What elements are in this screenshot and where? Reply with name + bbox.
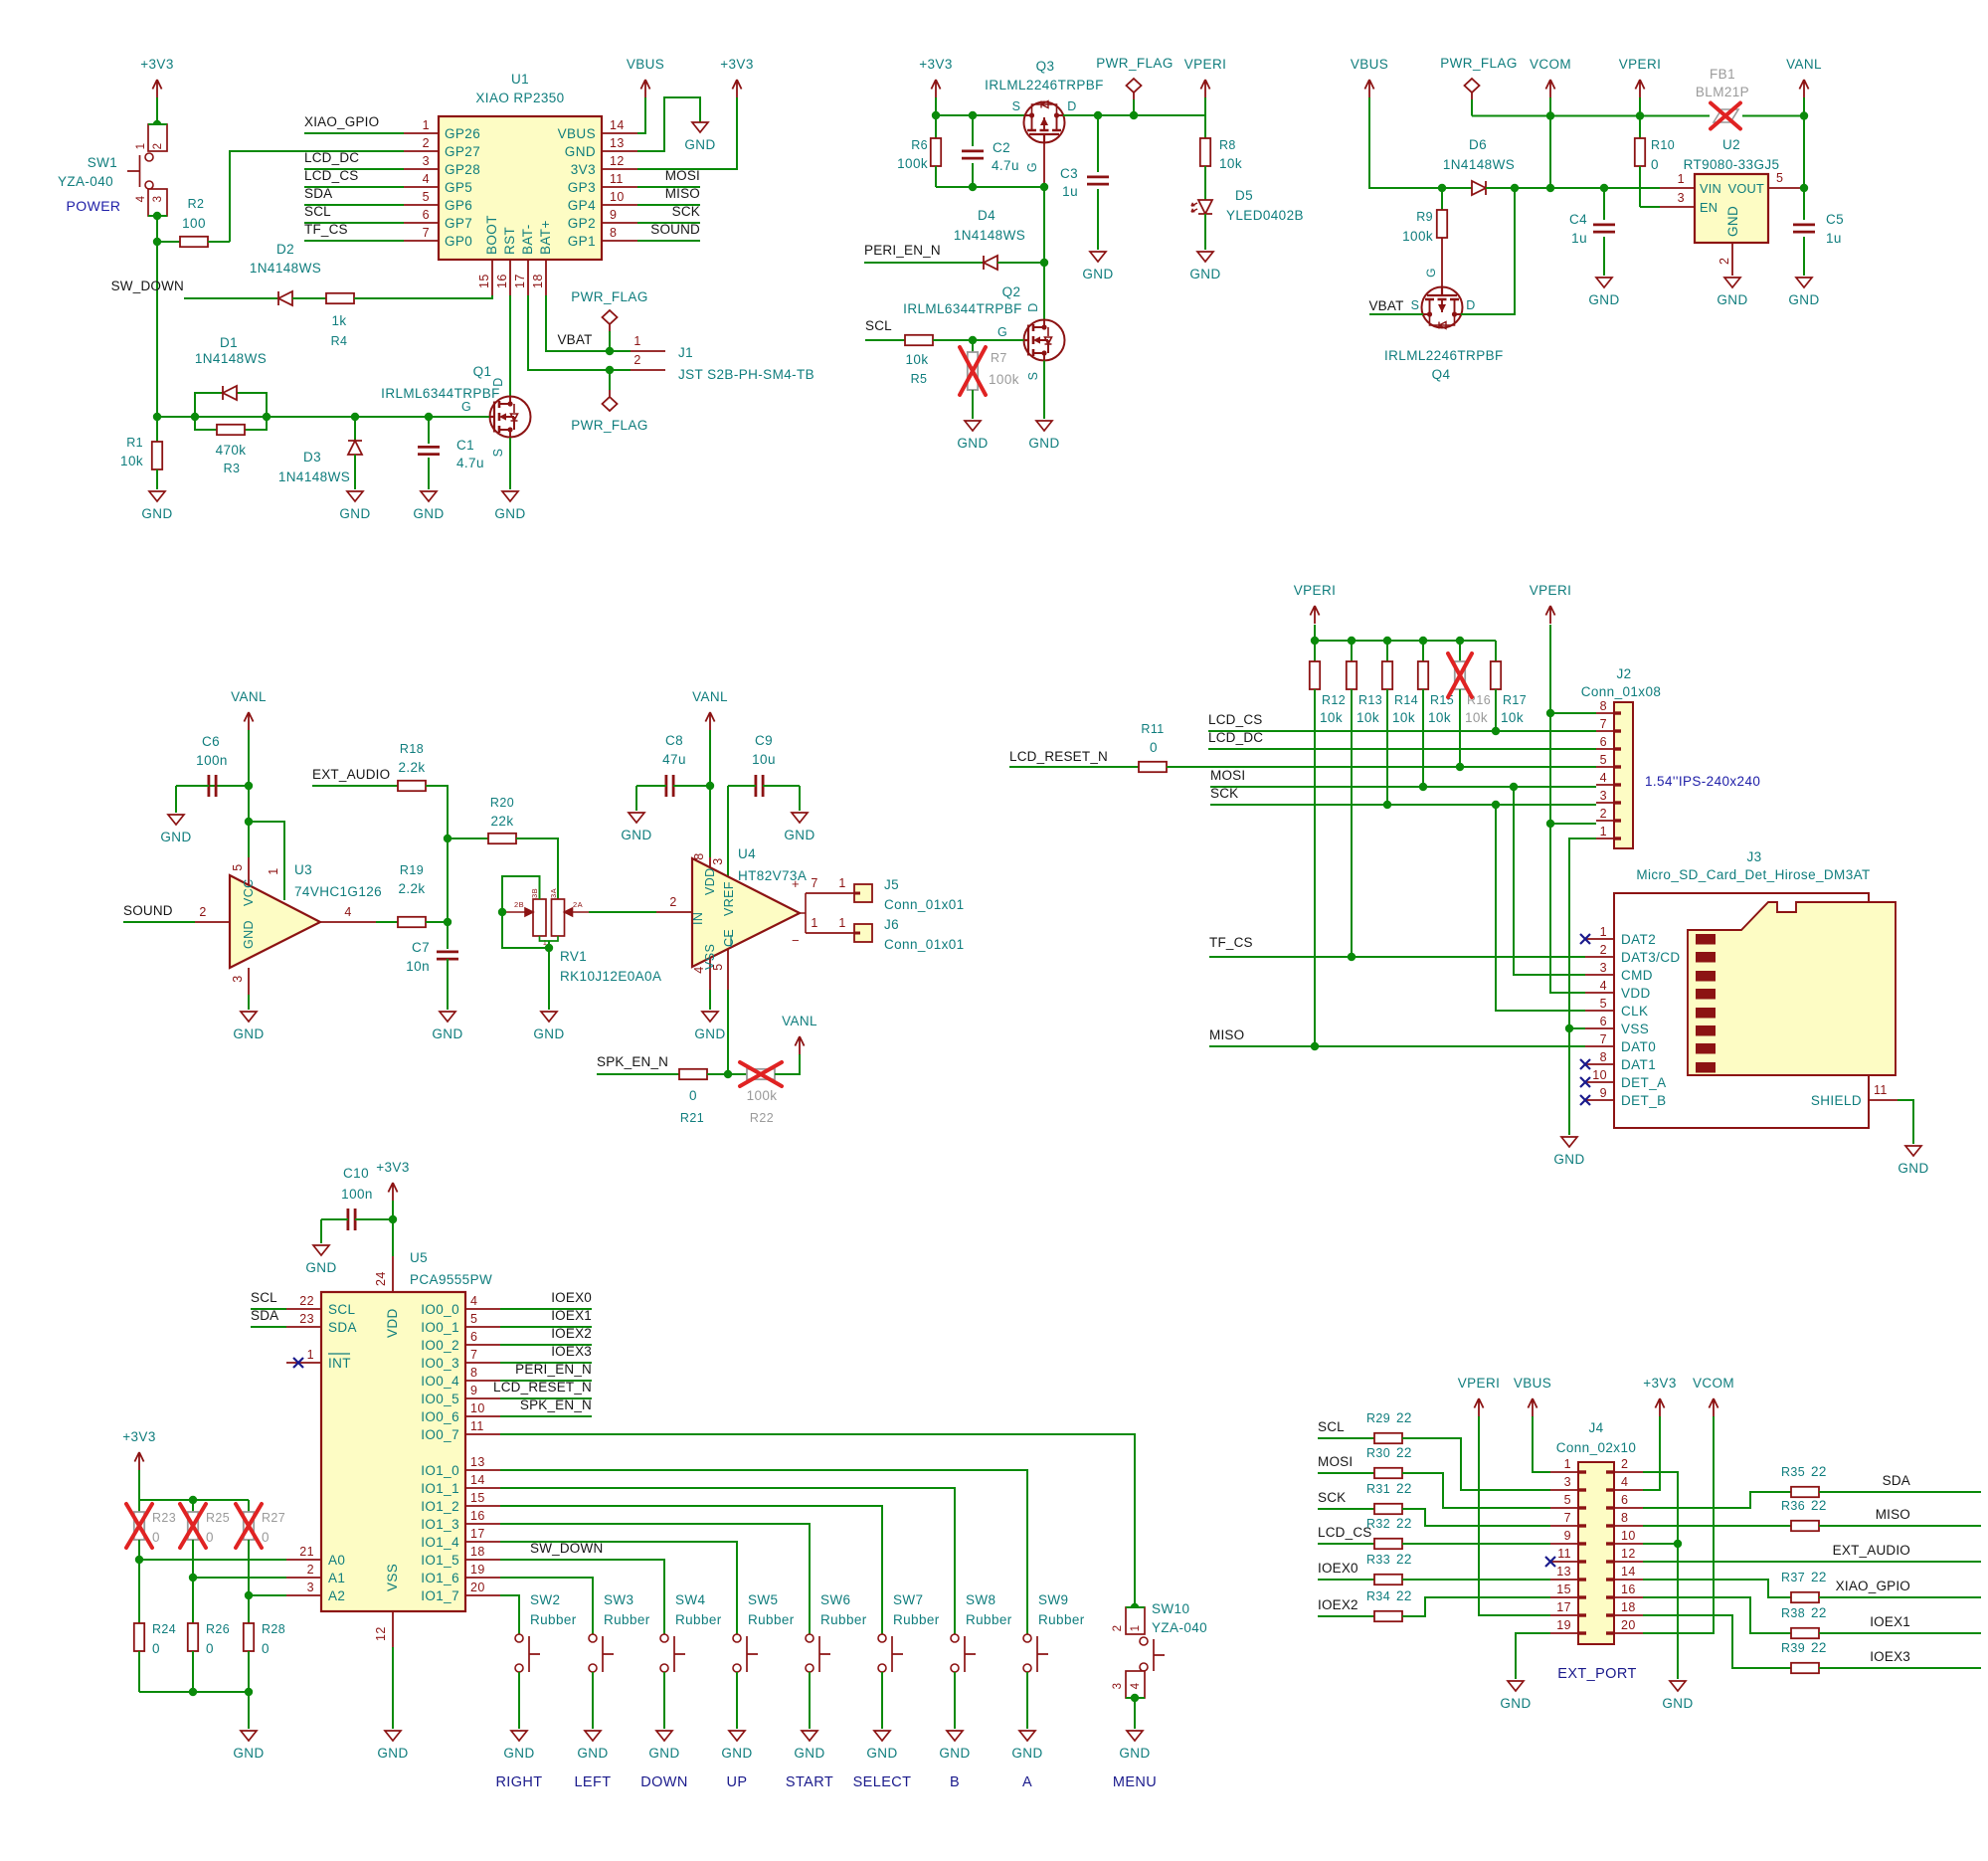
- switch SW9 Rubber: [1023, 1634, 1031, 1642]
- svg-text:EN: EN: [1700, 200, 1717, 215]
- svg-text:8: 8: [1600, 1050, 1607, 1064]
- junction PWR_FLAG: [1130, 111, 1138, 119]
- ground below SW6: [802, 1731, 817, 1741]
- svg-text:GND: GND: [533, 1026, 564, 1041]
- wire SCL to R29: [1318, 1437, 1374, 1439]
- svg-text:6: 6: [1600, 735, 1607, 749]
- svg-text:2.2k: 2.2k: [398, 760, 425, 775]
- wire U5 IOEX0: [500, 1308, 592, 1310]
- svg-text:LCD_DC: LCD_DC: [304, 150, 359, 165]
- svg-text:MISO: MISO: [1209, 1027, 1244, 1042]
- svg-text:8: 8: [470, 1366, 477, 1380]
- junction C3 top: [1094, 111, 1102, 119]
- junction VPERI/J2 pin2: [1546, 820, 1554, 828]
- U5 pin 16 IO1_3: [465, 1523, 500, 1525]
- svg-text:Rubber: Rubber: [966, 1612, 1012, 1627]
- svg-text:3B: 3B: [530, 888, 539, 898]
- svg-text:R38: R38: [1781, 1606, 1805, 1620]
- resistor R23 0 (DNP): [138, 1500, 140, 1512]
- wire TF_CS to J3 DAT3/CD: [1209, 956, 1585, 958]
- power VBUS (J4): [1528, 1398, 1536, 1416]
- capacitor C3 1u: [1097, 115, 1099, 172]
- svg-text:YZA-040: YZA-040: [1152, 1620, 1207, 1635]
- wire U5 LCD_RESET_N: [500, 1397, 592, 1399]
- svg-text:11: 11: [1874, 1083, 1888, 1097]
- resistor R2: [157, 241, 180, 243]
- svg-text:Q3: Q3: [1036, 59, 1055, 74]
- J2 pin 2 stub: [1596, 820, 1614, 822]
- svg-text:100k: 100k: [1402, 229, 1433, 244]
- svg-text:IO1_4: IO1_4: [421, 1535, 459, 1550]
- svg-text:MISO: MISO: [665, 186, 700, 201]
- svg-text:9: 9: [470, 1384, 477, 1397]
- resistor R3 470k (parallel bottom): [195, 417, 217, 430]
- svg-text:CLK: CLK: [1621, 1004, 1648, 1019]
- svg-text:SHIELD: SHIELD: [1811, 1093, 1862, 1108]
- svg-text:8: 8: [1600, 699, 1607, 713]
- svg-text:VSS: VSS: [1621, 1022, 1649, 1036]
- wire U5 IOEX2: [500, 1344, 592, 1346]
- J3 pin 6 VSS: [1585, 1027, 1614, 1029]
- wire R20 to RV1 top: [516, 838, 558, 899]
- wire J4 pin10 to GND column: [1643, 1543, 1678, 1545]
- wire +3V3 to U5 VDD: [392, 1201, 394, 1256]
- svg-text:J6: J6: [884, 917, 899, 932]
- wire Q3 drain rail: [1063, 114, 1205, 116]
- svg-text:22: 22: [1396, 1481, 1412, 1496]
- capacitor C2 4.7u: [972, 115, 974, 146]
- wire C6 to GND: [175, 786, 177, 813]
- ground below C9: [792, 813, 808, 823]
- U4 pin3 VREF: [727, 876, 729, 877]
- power +3V3 (U5): [388, 1183, 397, 1201]
- svg-text:GP26: GP26: [445, 126, 480, 141]
- wire EXT_AUDIO to R18: [312, 785, 398, 787]
- junction strap rail R25: [189, 1496, 197, 1504]
- wire SHIELD to GND: [1898, 1100, 1913, 1144]
- svg-text:SW9: SW9: [1038, 1592, 1068, 1607]
- svg-text:1: 1: [267, 867, 280, 874]
- resistor R33 22: [1374, 1575, 1402, 1584]
- wire U5 IO0_7 to SW10: [500, 1434, 1135, 1607]
- svg-text:19: 19: [1556, 1618, 1571, 1632]
- svg-text:VANL: VANL: [782, 1014, 817, 1028]
- power VPERI (Q3 drain): [1200, 80, 1209, 97]
- svg-text:R17: R17: [1503, 693, 1527, 707]
- svg-text:74VHC1G126: 74VHC1G126: [294, 884, 382, 899]
- power VBUS (U1): [640, 80, 649, 97]
- wire R32 to J4: [1402, 1543, 1550, 1545]
- svg-text:4: 4: [1621, 1475, 1628, 1489]
- svg-text:SCK: SCK: [1210, 786, 1238, 801]
- junction C8 node: [706, 782, 714, 790]
- svg-text:SELECT: SELECT: [853, 1774, 912, 1790]
- junction bottom rail R28: [245, 1688, 253, 1696]
- resistor R8 10k: [1200, 138, 1210, 166]
- svg-text:R3: R3: [224, 462, 241, 475]
- wire U5 SPK_EN_N: [500, 1415, 592, 1417]
- svg-text:1: 1: [838, 916, 845, 930]
- svg-text:6: 6: [470, 1330, 477, 1344]
- wire C9 to GND: [799, 786, 801, 811]
- wire U5 PERI_EN_N: [500, 1380, 592, 1382]
- svg-text:+3V3: +3V3: [122, 1429, 156, 1444]
- junction MOSI/CMD riser: [1510, 783, 1518, 791]
- connector J2 Conn_01x08 body: [1614, 702, 1633, 848]
- svg-text:15: 15: [477, 274, 491, 288]
- wire SCL to U5: [251, 1308, 286, 1310]
- U5 pin 7 IO0_3: [465, 1362, 500, 1364]
- svg-text:J4: J4: [1588, 1420, 1603, 1435]
- wire U1 pin18 BAT+ to J1 pin1: [546, 295, 631, 351]
- U5 pin 8 IO0_4: [465, 1380, 500, 1382]
- svg-text:GP4: GP4: [568, 198, 596, 213]
- svg-text:Rubber: Rubber: [675, 1612, 722, 1627]
- svg-text:22: 22: [1396, 1410, 1412, 1425]
- svg-text:10k: 10k: [1320, 710, 1343, 725]
- no-connect J4 pin11: [1545, 1557, 1555, 1567]
- svg-text:0: 0: [152, 1530, 160, 1545]
- transistor Q4 IRLML2246TRPBF: [1422, 287, 1463, 328]
- svg-text:5: 5: [1600, 753, 1607, 767]
- svg-text:SW5: SW5: [748, 1592, 778, 1607]
- wire SW7 to GND: [881, 1672, 883, 1729]
- svg-text:IO1_7: IO1_7: [421, 1588, 459, 1603]
- svg-text:22: 22: [1396, 1445, 1412, 1460]
- svg-text:SW7: SW7: [893, 1592, 923, 1607]
- svg-text:SOUND: SOUND: [123, 903, 173, 918]
- svg-text:IO0_2: IO0_2: [421, 1338, 459, 1353]
- wire SW3 to GND: [592, 1672, 594, 1729]
- svg-text:GND: GND: [377, 1746, 408, 1761]
- svg-text:IO1_2: IO1_2: [421, 1499, 459, 1514]
- svg-text:Q4: Q4: [1432, 367, 1451, 382]
- wire VBAT to Q4 source: [1369, 313, 1423, 315]
- wire SW10 to GND: [1134, 1698, 1136, 1729]
- resistor R35 22: [1791, 1487, 1819, 1497]
- svg-text:7: 7: [1600, 717, 1607, 731]
- svg-text:VOUT: VOUT: [1728, 181, 1764, 196]
- potentiometer RV1 RK10J12E0A0A: [533, 899, 546, 936]
- svg-text:EXT_PORT: EXT_PORT: [1557, 1666, 1636, 1682]
- wire PWR_FLAG to VCOM node: [1472, 115, 1550, 117]
- switch SW1 pin3 box: [148, 189, 167, 216]
- svg-text:Rubber: Rubber: [1038, 1612, 1085, 1627]
- U5 pin 5 IO0_1: [465, 1326, 500, 1328]
- svg-text:VSS: VSS: [385, 1564, 400, 1591]
- svg-text:7: 7: [1564, 1511, 1571, 1525]
- svg-text:A2: A2: [328, 1588, 345, 1603]
- wire OE branch to U3 pin1: [249, 822, 284, 900]
- svg-text:R1: R1: [126, 436, 143, 450]
- wire R38 to IOEX1: [1819, 1632, 1981, 1634]
- svg-text:1.54''IPS-240x240: 1.54''IPS-240x240: [1645, 774, 1760, 789]
- svg-text:VBAT: VBAT: [557, 332, 592, 347]
- svg-text:GND: GND: [1717, 292, 1747, 307]
- wire R22 to VANL: [775, 1054, 800, 1074]
- svg-text:R2: R2: [188, 197, 205, 211]
- svg-text:IRLML6344TRPBF: IRLML6344TRPBF: [903, 301, 1022, 316]
- svg-text:LCD_DC: LCD_DC: [1208, 730, 1263, 745]
- svg-text:14: 14: [610, 118, 625, 132]
- svg-text:D: D: [1026, 302, 1040, 311]
- svg-text:9: 9: [1600, 1086, 1607, 1100]
- svg-text:R10: R10: [1651, 138, 1675, 152]
- svg-text:GND: GND: [233, 1026, 264, 1041]
- wire D6 to VIN: [1486, 187, 1660, 189]
- resistor R36 22: [1791, 1521, 1819, 1531]
- junction R17/LCD_CS: [1492, 727, 1500, 735]
- svg-text:0: 0: [152, 1641, 160, 1656]
- resistor R10 0: [1639, 137, 1641, 139]
- svg-text:6: 6: [1621, 1493, 1628, 1507]
- ground below U2: [1724, 278, 1740, 287]
- U3 pin3 GND: [248, 968, 250, 995]
- svg-text:2.2k: 2.2k: [398, 881, 425, 896]
- svg-text:PWR_FLAG: PWR_FLAG: [1440, 56, 1517, 71]
- svg-text:C10: C10: [343, 1166, 369, 1181]
- svg-text:Q2: Q2: [1002, 284, 1021, 299]
- wire R39 to IOEX3: [1819, 1667, 1981, 1669]
- svg-text:IOEX2: IOEX2: [551, 1326, 592, 1341]
- ground below SW5: [729, 1731, 745, 1741]
- svg-text:VANL: VANL: [692, 689, 728, 704]
- svg-text:GND: GND: [141, 506, 172, 521]
- resistor R24 0: [138, 1560, 140, 1623]
- svg-text:7: 7: [1600, 1032, 1607, 1046]
- junction RV1 wiper-B: [498, 908, 506, 916]
- junction R6 top: [932, 111, 940, 119]
- power flag PWR_FLAG (BAT-): [609, 370, 611, 390]
- wire VPERI node to FB1: [1640, 115, 1710, 117]
- svg-text:GND: GND: [339, 506, 370, 521]
- U4 output riser: [800, 893, 806, 933]
- resistor R1: [156, 417, 158, 442]
- svg-text:EXT_AUDIO: EXT_AUDIO: [1833, 1543, 1910, 1558]
- svg-text:VBUS: VBUS: [627, 57, 664, 72]
- svg-text:16: 16: [470, 1509, 485, 1523]
- svg-text:IOEX1: IOEX1: [1870, 1614, 1910, 1629]
- wire R25 to A1 row: [192, 1540, 194, 1578]
- J4 pin 8 stub: [1614, 1525, 1643, 1527]
- svg-text:R21: R21: [680, 1111, 704, 1125]
- wire C8 to GND: [635, 786, 637, 811]
- resistor R30 22: [1374, 1468, 1402, 1478]
- wire VANL column: [1803, 97, 1805, 220]
- svg-text:23: 23: [299, 1312, 314, 1326]
- svg-text:1: 1: [1564, 1457, 1571, 1471]
- resistor R5 10k: [905, 335, 933, 345]
- svg-text:VIN: VIN: [1700, 181, 1721, 196]
- resistor R12 10k: [1314, 641, 1316, 661]
- junction C10/VDD: [389, 1215, 397, 1223]
- svg-text:SDA: SDA: [328, 1320, 357, 1335]
- svg-text:GND: GND: [160, 830, 191, 844]
- svg-text:DAT0: DAT0: [1621, 1039, 1656, 1054]
- svg-text:47u: 47u: [662, 752, 686, 767]
- ground below SW3: [585, 1731, 601, 1741]
- svg-text:R19: R19: [400, 863, 424, 877]
- wire VBUS to J4 pin1: [1533, 1416, 1550, 1472]
- wire U5 IO to SW6: [500, 1524, 810, 1634]
- svg-text:2: 2: [307, 1563, 314, 1577]
- ground below C1: [421, 491, 437, 501]
- junction VANL top: [1800, 111, 1808, 119]
- J4 pin 2 stub: [1614, 1471, 1643, 1473]
- svg-text:R4: R4: [331, 334, 348, 348]
- svg-text:2: 2: [1717, 258, 1731, 265]
- power +3V3 (Q3 source): [931, 80, 940, 97]
- RV1 wiper right (2A): [565, 908, 590, 916]
- svg-text:VANL: VANL: [231, 689, 267, 704]
- resistor R39 22: [1791, 1663, 1819, 1673]
- svg-text:R13: R13: [1358, 693, 1382, 707]
- J4 pin 13 stub: [1550, 1579, 1578, 1581]
- wire U5 IO to SW8: [500, 1488, 955, 1634]
- svg-text:1: 1: [135, 143, 147, 150]
- svg-text:9: 9: [1564, 1529, 1571, 1543]
- wire U5 IO to SW5: [500, 1542, 737, 1634]
- svg-text:SOUND: SOUND: [650, 222, 700, 237]
- wire Q4 drain up to VBUS line: [1461, 188, 1515, 314]
- svg-text:R25: R25: [206, 1511, 230, 1525]
- U1 pin 2 GP27: [404, 150, 439, 152]
- J3 SD card silhouette: [1688, 902, 1896, 1075]
- U1 pin 10 GP4: [602, 204, 637, 206]
- svg-text:BAT+: BAT+: [538, 220, 553, 255]
- svg-text:Rubber: Rubber: [820, 1612, 867, 1627]
- svg-text:SCL: SCL: [1318, 1419, 1345, 1434]
- wire SCK branch to J3 CLK: [1496, 805, 1585, 1011]
- wire R18 to mix node: [426, 786, 448, 838]
- ground below SW4: [656, 1731, 672, 1741]
- power VPERI (J4): [1474, 1398, 1483, 1416]
- svg-text:IOEX2: IOEX2: [1318, 1597, 1358, 1612]
- svg-text:4: 4: [470, 1294, 477, 1308]
- svg-text:5: 5: [423, 190, 430, 204]
- resistor R14 10k: [1386, 641, 1388, 661]
- wire gate node to Q2 drain: [1043, 263, 1045, 319]
- svg-text:IN: IN: [691, 912, 705, 925]
- svg-text:GND: GND: [242, 920, 256, 949]
- ferrite bead FB1 BLM21P (DNP): [1714, 109, 1738, 122]
- switch SW1 contacts and lever: [145, 153, 153, 161]
- svg-text:SW_DOWN: SW_DOWN: [530, 1541, 603, 1556]
- svg-text:GND: GND: [1028, 436, 1059, 451]
- junction R20 node: [444, 835, 452, 842]
- U2 pin1 VIN: [1660, 187, 1695, 189]
- U1 pin 18 BAT+: [545, 260, 547, 295]
- U1 pin 9 GP2: [602, 222, 637, 224]
- svg-text:1: 1: [633, 334, 640, 348]
- svg-text:13: 13: [1556, 1565, 1571, 1579]
- ground below D5: [1197, 252, 1213, 262]
- wire SW_DOWN to D2: [184, 297, 277, 299]
- U5 pin 1 INT: [286, 1362, 321, 1364]
- J2 pin 5 stub: [1596, 766, 1614, 768]
- svg-text:10: 10: [610, 190, 625, 204]
- capacitor C7 10n: [437, 952, 458, 959]
- svg-text:VPERI: VPERI: [1458, 1376, 1501, 1391]
- switch SW7 Rubber: [878, 1634, 886, 1642]
- svg-text:14: 14: [470, 1473, 485, 1487]
- ground below J3 VSS column: [1561, 1137, 1577, 1147]
- ground below C7: [440, 1012, 455, 1022]
- wire U1 pin17 BAT- to J1 pin2: [528, 295, 631, 370]
- U5 pin 19 IO1_6: [465, 1577, 500, 1579]
- svg-text:8: 8: [1621, 1511, 1628, 1525]
- svg-text:R12: R12: [1322, 693, 1346, 707]
- svg-text:GP27: GP27: [445, 144, 480, 159]
- svg-text:1: 1: [1130, 1625, 1142, 1632]
- junction C2 bottom: [969, 183, 977, 191]
- ground below C10: [313, 1245, 329, 1255]
- svg-text:IO1_0: IO1_0: [421, 1463, 459, 1478]
- svg-text:G: G: [1025, 162, 1039, 172]
- svg-text:TF_CS: TF_CS: [1209, 935, 1253, 950]
- J4 pin 5 stub: [1550, 1507, 1578, 1509]
- svg-text:R7: R7: [991, 351, 1007, 365]
- svg-text:+3V3: +3V3: [140, 57, 174, 72]
- svg-text:3: 3: [1564, 1475, 1571, 1489]
- svg-text:GP2: GP2: [568, 216, 596, 231]
- resistor R21 0: [679, 1069, 707, 1079]
- svg-text:VCOM: VCOM: [1693, 1376, 1734, 1391]
- svg-text:GND: GND: [1500, 1696, 1531, 1711]
- wire A0 to U5: [139, 1559, 286, 1561]
- wire +3V3 strap rail: [138, 1470, 140, 1509]
- U4 pin4 VSS: [709, 958, 711, 990]
- svg-text:R6: R6: [911, 138, 928, 152]
- wire R23 to A0 row: [138, 1540, 140, 1560]
- capacitor C9 10u: [756, 775, 763, 797]
- svg-text:U2: U2: [1722, 137, 1740, 152]
- svg-text:11: 11: [470, 1419, 484, 1433]
- junction Q2 drain node: [1040, 259, 1048, 267]
- wire U5 IO to SW2: [500, 1595, 519, 1634]
- svg-text:VREF: VREF: [722, 881, 736, 916]
- U1 pin 6 GP7: [404, 222, 439, 224]
- svg-text:4: 4: [135, 195, 147, 202]
- svg-text:GP3: GP3: [568, 180, 596, 195]
- svg-text:DAT3/CD: DAT3/CD: [1621, 950, 1681, 965]
- junction C4 top: [1600, 184, 1608, 192]
- U5 pin 22 SCL: [286, 1308, 321, 1310]
- wire MOSI to R30: [1318, 1472, 1374, 1474]
- svg-text:2: 2: [1600, 943, 1607, 957]
- J4 pin 16 stub: [1614, 1596, 1643, 1598]
- wire SW8 to GND: [954, 1672, 956, 1729]
- wire R11 to J2 pin5: [1167, 766, 1596, 768]
- wire A2 to U5: [249, 1594, 286, 1596]
- svg-text:SCL: SCL: [251, 1290, 277, 1305]
- resistor R6 100k: [935, 115, 937, 138]
- svg-text:IOEX3: IOEX3: [551, 1344, 592, 1359]
- wire XIAO_GPIO to pin1: [304, 132, 404, 134]
- svg-text:XIAO_GPIO: XIAO_GPIO: [304, 114, 379, 129]
- wire MOSI to J2 pin4: [1210, 786, 1596, 788]
- svg-text:R30: R30: [1366, 1446, 1390, 1460]
- U1 pin 14 VBUS: [602, 132, 637, 134]
- svg-text:R28: R28: [262, 1622, 285, 1636]
- junction J2pin1/VSS: [1565, 1024, 1573, 1032]
- U4 pin5 CE: [727, 949, 729, 990]
- U2 pin3 EN: [1660, 206, 1695, 208]
- wire U5 IO to SW3: [500, 1578, 593, 1634]
- resistor R4 1k: [326, 293, 354, 303]
- svg-text:RIGHT: RIGHT: [495, 1774, 542, 1790]
- resistor R29 22: [1374, 1433, 1402, 1443]
